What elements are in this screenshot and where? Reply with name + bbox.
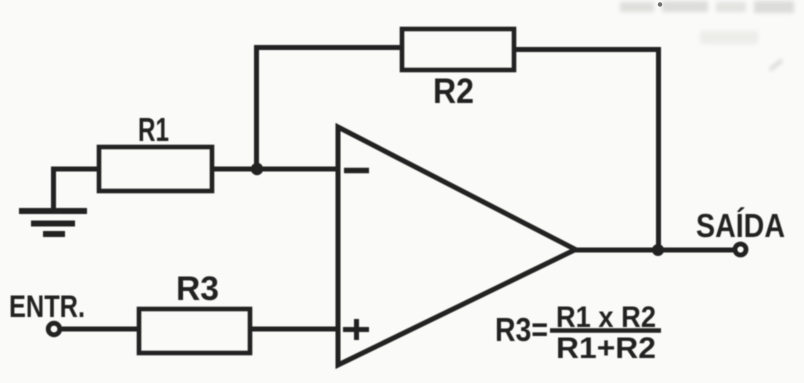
svg-text:ENTR.: ENTR. <box>9 288 85 324</box>
wire terminal to R3 <box>62 327 139 332</box>
svg-text:R3=: R3= <box>495 311 548 348</box>
svg-text:R1+R2: R1+R2 <box>556 332 656 365</box>
node junction at output <box>652 244 664 256</box>
output terminal circle SAIDA <box>735 244 746 255</box>
wire op-amp output to terminal <box>574 248 733 253</box>
input terminal circle ENTR <box>48 323 60 335</box>
non-inverting input plus sign <box>343 319 369 340</box>
svg-text:SAÍDA: SAÍDA <box>696 207 785 244</box>
wire junction up and over to R2 <box>257 48 403 170</box>
svg-text:R1: R1 <box>138 111 169 148</box>
resistor R2 <box>402 29 514 70</box>
wire R3 to op-amp non-inverting input <box>250 327 339 332</box>
scan bleed-through smudge top right <box>620 1 794 70</box>
ground <box>19 211 87 234</box>
inverting input minus sign <box>344 168 369 174</box>
op-amp U1 <box>338 127 576 365</box>
resistor R1 <box>99 147 212 191</box>
formula fraction bar <box>550 328 661 333</box>
wire ground to R1 <box>54 169 100 208</box>
wire R2 to output node <box>514 50 659 251</box>
svg-text:R3: R3 <box>176 270 219 308</box>
svg-text:R2: R2 <box>433 72 474 111</box>
resistor R3 <box>139 309 250 353</box>
node junction at inverting input <box>251 163 263 175</box>
wire R1 to op-amp inverting input <box>212 167 339 172</box>
